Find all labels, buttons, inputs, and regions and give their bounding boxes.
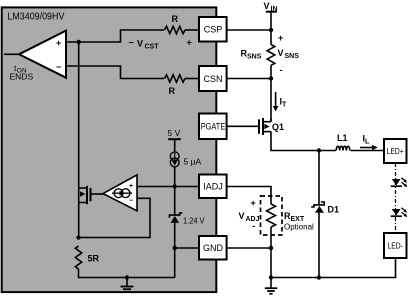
pin CSP [199, 17, 227, 42]
label VCST [129, 38, 192, 51]
svg-text:-: - [280, 65, 283, 75]
svg-text:V: V [278, 48, 284, 58]
ground (internal) [121, 278, 134, 292]
node D1 bottom junction [317, 275, 321, 279]
arrow IL current [360, 134, 378, 151]
svg-text:V: V [239, 211, 245, 221]
wire R bottom to CSN [185, 78, 199, 80]
svg-text:GND: GND [203, 243, 224, 253]
wire GND pin to REXT junction [227, 247, 271, 249]
svg-text:LED+: LED+ [387, 147, 404, 156]
transistor Q1 PMOS [259, 118, 284, 135]
svg-text:LM3409/09HV: LM3409/09HV [7, 11, 64, 22]
current source 5uA [170, 152, 201, 167]
wire L1 to LED+ [351, 150, 384, 152]
wire IADJ to REXT [227, 187, 271, 205]
svg-text:ENDS: ENDS [10, 72, 34, 82]
svg-text:+: + [251, 198, 256, 208]
wire zener to GND junction [174, 223, 176, 278]
svg-text:V: V [137, 39, 143, 49]
svg-text:R: R [172, 14, 179, 24]
wire comparator + input to resistor R top [66, 30, 164, 42]
wire LED string (dash-dot) [395, 163, 397, 233]
node + input junction [77, 40, 81, 44]
wire Q1 drain to switch node [271, 119, 336, 151]
svg-text:-: - [252, 221, 255, 231]
svg-text:+: + [56, 38, 61, 48]
zener 1.24V [169, 213, 204, 226]
wire IADJ junction to zener [174, 187, 176, 216]
svg-text:SNS: SNS [247, 54, 262, 61]
wire + junction down to internal FET [78, 42, 80, 238]
svg-text:+: + [187, 38, 192, 48]
wire 5R to internal ground rail [79, 269, 175, 278]
node CSP junction [269, 28, 273, 32]
op-amp U2 buffer [103, 175, 137, 211]
svg-text:+: + [278, 33, 283, 43]
pin PGATE [199, 114, 227, 140]
wire PGATE to Q1 gate [227, 125, 259, 127]
svg-text:Optional: Optional [284, 223, 314, 232]
svg-text:−: − [129, 38, 134, 48]
diode D1 schottky [311, 202, 339, 215]
svg-text:PGATE: PGATE [201, 122, 226, 132]
node ground rail junction [269, 275, 273, 279]
pin IADJ [199, 175, 227, 199]
LED D2 [391, 178, 407, 187]
node switch/D1 junction [317, 148, 321, 152]
resistor REXT [267, 204, 315, 232]
svg-text:−: − [129, 198, 133, 205]
svg-text:V: V [264, 1, 270, 11]
node internal GND junction [173, 246, 177, 250]
node internal ground junction [125, 275, 129, 279]
node 5R top junction [76, 235, 80, 239]
svg-text:Q1: Q1 [272, 122, 284, 132]
arrow IT current [273, 92, 287, 112]
svg-text:D1: D1 [328, 205, 340, 215]
svg-text:R: R [169, 86, 176, 96]
IC block LM3409/09HV [2, 7, 217, 292]
node CSN junction [269, 76, 273, 80]
svg-text:SNS: SNS [285, 53, 300, 60]
wire current source to IADJ net [174, 167, 176, 187]
block LED+ [384, 139, 407, 163]
wire comparator output tON ENDS [4, 54, 33, 81]
wire R top to CSP [185, 29, 199, 31]
svg-text:5R: 5R [88, 254, 100, 264]
ground (external) [265, 278, 277, 294]
wire REXT to GND net [270, 227, 272, 278]
wire CSP to rail [227, 29, 271, 31]
wire GND pin left into chip [175, 247, 199, 249]
inductor L1 [336, 133, 350, 151]
svg-text:CSP: CSP [204, 25, 223, 35]
LED D3 [391, 208, 407, 217]
pin GND [199, 236, 227, 260]
svg-text:LED-: LED- [387, 241, 403, 250]
block LED- [384, 233, 407, 258]
wire RSNS to Q1 [270, 65, 272, 121]
wire CSN to rail [227, 78, 271, 80]
wire comparator - input to resistor R bottom [66, 66, 164, 79]
svg-text:IADJ: IADJ [203, 182, 223, 192]
internal 5V supply [168, 128, 181, 153]
svg-text:CST: CST [145, 44, 160, 51]
op-amp U1 comparator [19, 31, 66, 78]
wire op-amp - input to 5R node [79, 198, 151, 237]
svg-text:T: T [282, 102, 287, 109]
wire D1 branch [318, 151, 320, 278]
svg-text:L1: L1 [337, 133, 348, 143]
label VADJ [239, 198, 260, 231]
node IADJ junction [173, 184, 177, 188]
svg-text:1.24 V: 1.24 V [183, 216, 205, 226]
svg-text:5 V: 5 V [168, 128, 181, 138]
svg-text:5 µA: 5 µA [184, 157, 202, 167]
dashed box REXT optional [261, 196, 283, 235]
node GND/REXT junction [269, 246, 273, 250]
resistor RSNS [241, 45, 275, 66]
wire IADJ net to op-amp [137, 186, 199, 188]
svg-text:+: + [129, 183, 133, 190]
resistor R (top) [165, 14, 186, 34]
wire LED- to ground rail [271, 258, 396, 278]
svg-text:−: − [56, 62, 61, 72]
pin CSN [199, 66, 227, 91]
transistor internal PMOS [79, 186, 104, 204]
resistor R (bottom) [165, 75, 186, 96]
svg-text:CSN: CSN [203, 74, 222, 84]
resistor 5R [75, 246, 99, 269]
label VSNS [278, 33, 300, 75]
label VIN [264, 1, 278, 13]
wire VIN rail to RSNS [270, 12, 272, 45]
svg-text:L: L [365, 139, 370, 146]
